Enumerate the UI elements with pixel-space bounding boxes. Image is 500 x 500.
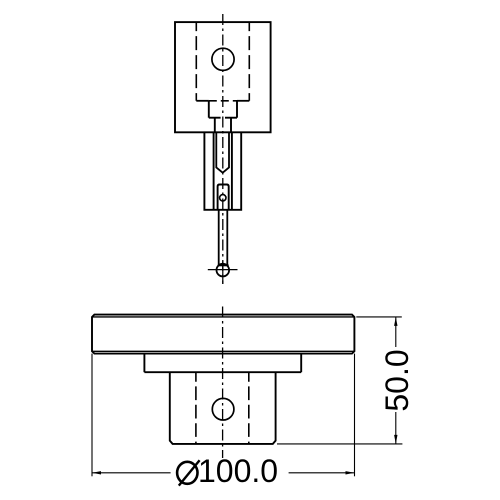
flange bottom chamfer edge bbox=[92, 350, 354, 352]
centerline bottom view bbox=[222, 307, 224, 459]
lower boss block bbox=[170, 372, 276, 444]
dimension extension line right bbox=[354, 354, 356, 477]
ball center mark vertical bbox=[222, 262, 224, 284]
housing hole circle bbox=[212, 48, 234, 70]
hidden bore left bottom view bbox=[195, 372, 197, 444]
outer housing block bbox=[175, 22, 271, 132]
extension line 50 bottom bbox=[277, 443, 402, 445]
arrowhead 50 top bbox=[394, 317, 397, 326]
bore seat edge bbox=[196, 100, 249, 102]
boss hole circle bbox=[212, 398, 234, 420]
hidden bore line right bbox=[248, 22, 250, 101]
clamp bracket bbox=[218, 185, 229, 210]
hidden bore line left bbox=[195, 22, 197, 101]
probe ball bbox=[217, 264, 230, 277]
arrowhead right bbox=[346, 471, 355, 474]
flange top chamfer edge bbox=[92, 316, 354, 318]
extension line 50 top bbox=[356, 316, 402, 318]
dimension line 50 bbox=[395, 317, 397, 444]
dimension extension line left bbox=[91, 354, 93, 477]
arrowhead 50 bottom bbox=[394, 435, 397, 444]
hidden bore right bottom view bbox=[248, 372, 250, 444]
lower holder block bbox=[204, 132, 241, 210]
svg-text:50.0: 50.0 bbox=[379, 349, 415, 411]
probe stem bbox=[219, 210, 228, 266]
bore wall lines bbox=[215, 118, 231, 133]
base flange outline bbox=[92, 315, 354, 354]
middle boss step bbox=[144, 354, 301, 373]
ball top chord bbox=[218, 264, 229, 266]
dimension line diameter bbox=[92, 472, 355, 474]
centerline top view bbox=[222, 14, 224, 284]
clamp screw circle bbox=[220, 195, 226, 201]
ball center mark horizontal bbox=[208, 269, 238, 271]
svg-text:100.0: 100.0 bbox=[198, 453, 278, 489]
dimension text diameter symbol bbox=[177, 460, 200, 485]
channel slot lines bbox=[214, 132, 232, 210]
spindle with conical tip bbox=[216, 132, 229, 172]
arrowhead left bbox=[92, 471, 101, 474]
step shoulder bbox=[209, 101, 237, 118]
